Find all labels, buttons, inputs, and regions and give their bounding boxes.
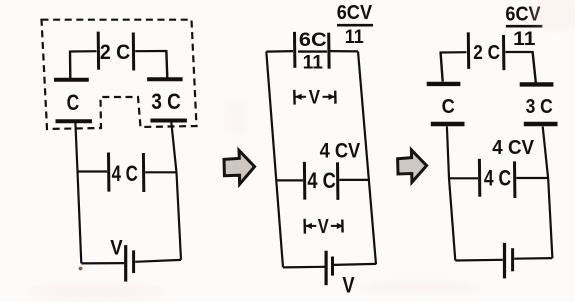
svg-text:C: C xyxy=(67,90,80,115)
battery V long plate xyxy=(124,245,127,282)
label C xyxy=(67,90,80,115)
battery (right circuit) long plate xyxy=(503,243,506,279)
wire: stub down-left from 2C to capacitor C xyxy=(69,51,72,79)
capacitor 3C bottom plate xyxy=(150,119,187,123)
svg-text:4 CV: 4 CV xyxy=(492,137,534,159)
dimension arrow lower |&lt;-V-&gt;| xyxy=(305,216,344,238)
wire: 2C right to top-right corner xyxy=(135,50,166,52)
svg-text:3 C: 3 C xyxy=(151,89,180,114)
wire: 2C right to corner (right circuit) xyxy=(506,51,533,53)
wire: stub from 2C down-left to C (right circuit) xyxy=(441,52,443,82)
label 6CV (numerator, over top-right) xyxy=(337,2,373,24)
svg-text:4 C: 4 C xyxy=(307,168,335,193)
wire: middle circuit top-left xyxy=(266,50,293,53)
battery (middle) long plate xyxy=(325,251,328,286)
capacitor 4C (right circuit) right plate xyxy=(513,161,516,198)
wire: middle circuit left edge xyxy=(266,52,283,268)
wire: right circuit right branch down xyxy=(543,127,553,259)
capacitor 4C right plate xyxy=(142,153,145,192)
battery V short plate xyxy=(132,250,135,273)
fraction bar 6C/11 xyxy=(298,50,327,52)
capacitor 3C (right circuit) top plate xyxy=(520,82,554,86)
capacitor 6C/11 left plate xyxy=(293,32,296,68)
svg-text:2 C: 2 C xyxy=(100,41,130,64)
svg-text:6C: 6C xyxy=(299,30,327,51)
svg-text:C: C xyxy=(442,96,455,118)
label 6CV (numerator, right circuit) xyxy=(505,4,541,26)
svg-text:11: 11 xyxy=(303,53,324,74)
label 4 CV (middle circuit) xyxy=(320,139,361,162)
fraction bar 6CV/11 (right circuit) xyxy=(506,25,543,28)
label 11 (denominator, right circuit) xyxy=(513,29,536,50)
svg-text:V: V xyxy=(342,273,354,298)
capacitor C (right circuit) top plate xyxy=(427,82,461,86)
label V (middle battery) xyxy=(342,273,354,298)
dashed enclosure box around 2C, C, 3C xyxy=(42,20,197,129)
svg-text:V: V xyxy=(309,88,321,109)
wire: right circuit top-left wire to 2C xyxy=(441,51,467,53)
wire: stub from 2C down-right to 3C (right circuit) xyxy=(533,51,536,83)
svg-text:6CV: 6CV xyxy=(337,2,373,24)
capacitor 4C (middle) left plate xyxy=(303,162,306,200)
svg-text:2 C: 2 C xyxy=(473,42,500,64)
label 11 (denominator) xyxy=(303,53,324,74)
svg-text:11: 11 xyxy=(513,29,536,50)
wire: right circuit bottom-left to battery xyxy=(455,259,503,262)
capacitor 3C top plate xyxy=(147,77,183,81)
wire: right 4C left lead xyxy=(449,177,478,179)
label 2 C xyxy=(100,41,130,64)
capacitor 3C (right circuit) bottom plate xyxy=(524,122,558,126)
wire: battery to bottom-right xyxy=(135,260,181,262)
wire: middle circuit right edge xyxy=(358,51,376,264)
label 3 C xyxy=(151,89,180,114)
wire: bottom-left wire to battery xyxy=(81,262,124,264)
wire: stub down-right from 2C to capacitor 3C xyxy=(166,50,167,78)
capacitor C top plate xyxy=(54,78,89,82)
wire: middle bottom-left wire to battery xyxy=(283,266,325,269)
battery (middle) short plate xyxy=(331,257,334,276)
wire: 4C branch right lead xyxy=(145,171,176,173)
capacitor 2C (right circuit) right plate xyxy=(502,35,505,70)
capacitor C (right circuit) bottom plate xyxy=(431,122,465,126)
wire: middle 4C left lead xyxy=(276,179,303,181)
label 3 C (right circuit) xyxy=(526,96,553,118)
label 4 C (right circuit) xyxy=(484,166,511,191)
battery (right circuit) short plate xyxy=(511,248,514,271)
wire: 4C branch left lead xyxy=(78,170,108,172)
ink dot artifact xyxy=(79,267,83,271)
wire: middle circuit top-right xyxy=(330,50,358,53)
label 6C (numerator) xyxy=(299,30,327,51)
capacitor 2C left plate xyxy=(97,32,100,70)
label 11 (denominator, middle) xyxy=(345,27,364,48)
wire: right circuit left branch down xyxy=(447,127,455,261)
capacitor 2C right plate xyxy=(132,33,135,71)
wire: right 4C right lead xyxy=(516,177,548,179)
svg-text:4 C: 4 C xyxy=(112,161,138,186)
fraction bar 6CV/11 (middle) xyxy=(337,24,373,27)
label 4 C (middle) xyxy=(307,168,335,193)
svg-text:11: 11 xyxy=(345,27,364,48)
wire: middle battery to bottom-right xyxy=(334,264,376,265)
capacitor 6C/11 right plate xyxy=(327,33,330,69)
svg-text:V: V xyxy=(110,236,122,259)
label 4 CV (right circuit) xyxy=(492,137,534,159)
label V (left circuit battery) xyxy=(110,236,122,259)
wire: left circuit top-left wire to 2C xyxy=(70,50,97,52)
label 4 C xyxy=(112,161,138,186)
wire: right battery to bottom-right xyxy=(514,257,552,260)
svg-text:4 CV: 4 CV xyxy=(320,139,361,162)
svg-text:4 C: 4 C xyxy=(484,166,511,191)
capacitor 4C left plate xyxy=(107,153,110,192)
label 2 C (right circuit) xyxy=(473,42,500,64)
wire: middle 4C right lead xyxy=(339,179,370,181)
svg-text:V: V xyxy=(318,216,330,238)
capacitor 4C (middle) right plate xyxy=(336,162,339,200)
block arrow 2 xyxy=(398,150,427,182)
capacitor C bottom plate xyxy=(56,119,93,123)
label C (right circuit) xyxy=(442,96,455,118)
block arrow 1 xyxy=(224,150,255,184)
wire: right branch down from 3C to bottom-right corner xyxy=(171,122,181,260)
wire: left branch down from C to bottom-left corner xyxy=(75,123,81,263)
capacitor 2C (right circuit) left plate xyxy=(467,32,470,69)
svg-text:3 C: 3 C xyxy=(526,96,553,118)
capacitor 4C (right circuit) left plate xyxy=(478,159,481,197)
dimension arrow upper |&lt;-V-&gt;| xyxy=(294,88,335,109)
